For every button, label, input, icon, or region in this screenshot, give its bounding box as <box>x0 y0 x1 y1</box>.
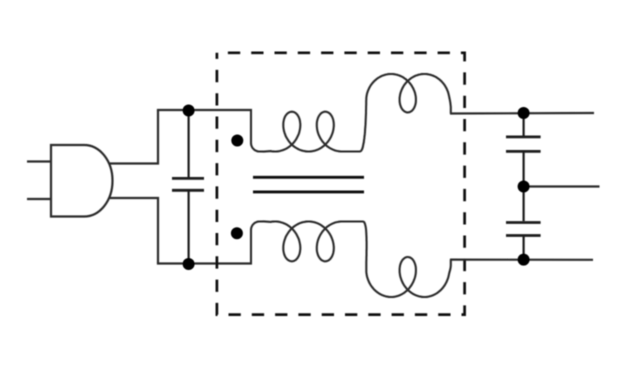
wire middle rail (earth) <box>524 185 600 187</box>
capacitor C1 (X-cap) <box>172 110 204 264</box>
plug prong bottom <box>27 198 51 200</box>
capacitor C3 (Y-cap bottom) <box>506 187 541 260</box>
junction dot top of C1 <box>183 105 195 117</box>
capacitor C2 (Y-cap top) <box>506 113 541 187</box>
dashed box (common-mode choke outline) <box>217 53 465 315</box>
wire top rail left <box>157 109 252 111</box>
inductor L1 top winding <box>251 74 451 152</box>
wire top rail right <box>450 112 594 115</box>
wire bottom rail right <box>450 259 593 261</box>
transformer core lines <box>253 177 364 192</box>
wire plug bottom to rail <box>109 198 158 264</box>
wire plug top to rail <box>109 110 158 164</box>
AC plug P1 <box>27 145 113 217</box>
junction dot middle rail <box>518 181 530 193</box>
junction dot top rail <box>518 107 530 119</box>
junction dot bottom of C1 <box>183 258 195 270</box>
plug prong top <box>27 160 51 162</box>
polarity dot top winding <box>231 135 243 147</box>
inductor L2 bottom winding <box>251 221 451 297</box>
junction dot bottom rail <box>518 254 530 266</box>
polarity dot bottom winding <box>231 227 243 239</box>
wire bottom rail left <box>157 262 252 264</box>
